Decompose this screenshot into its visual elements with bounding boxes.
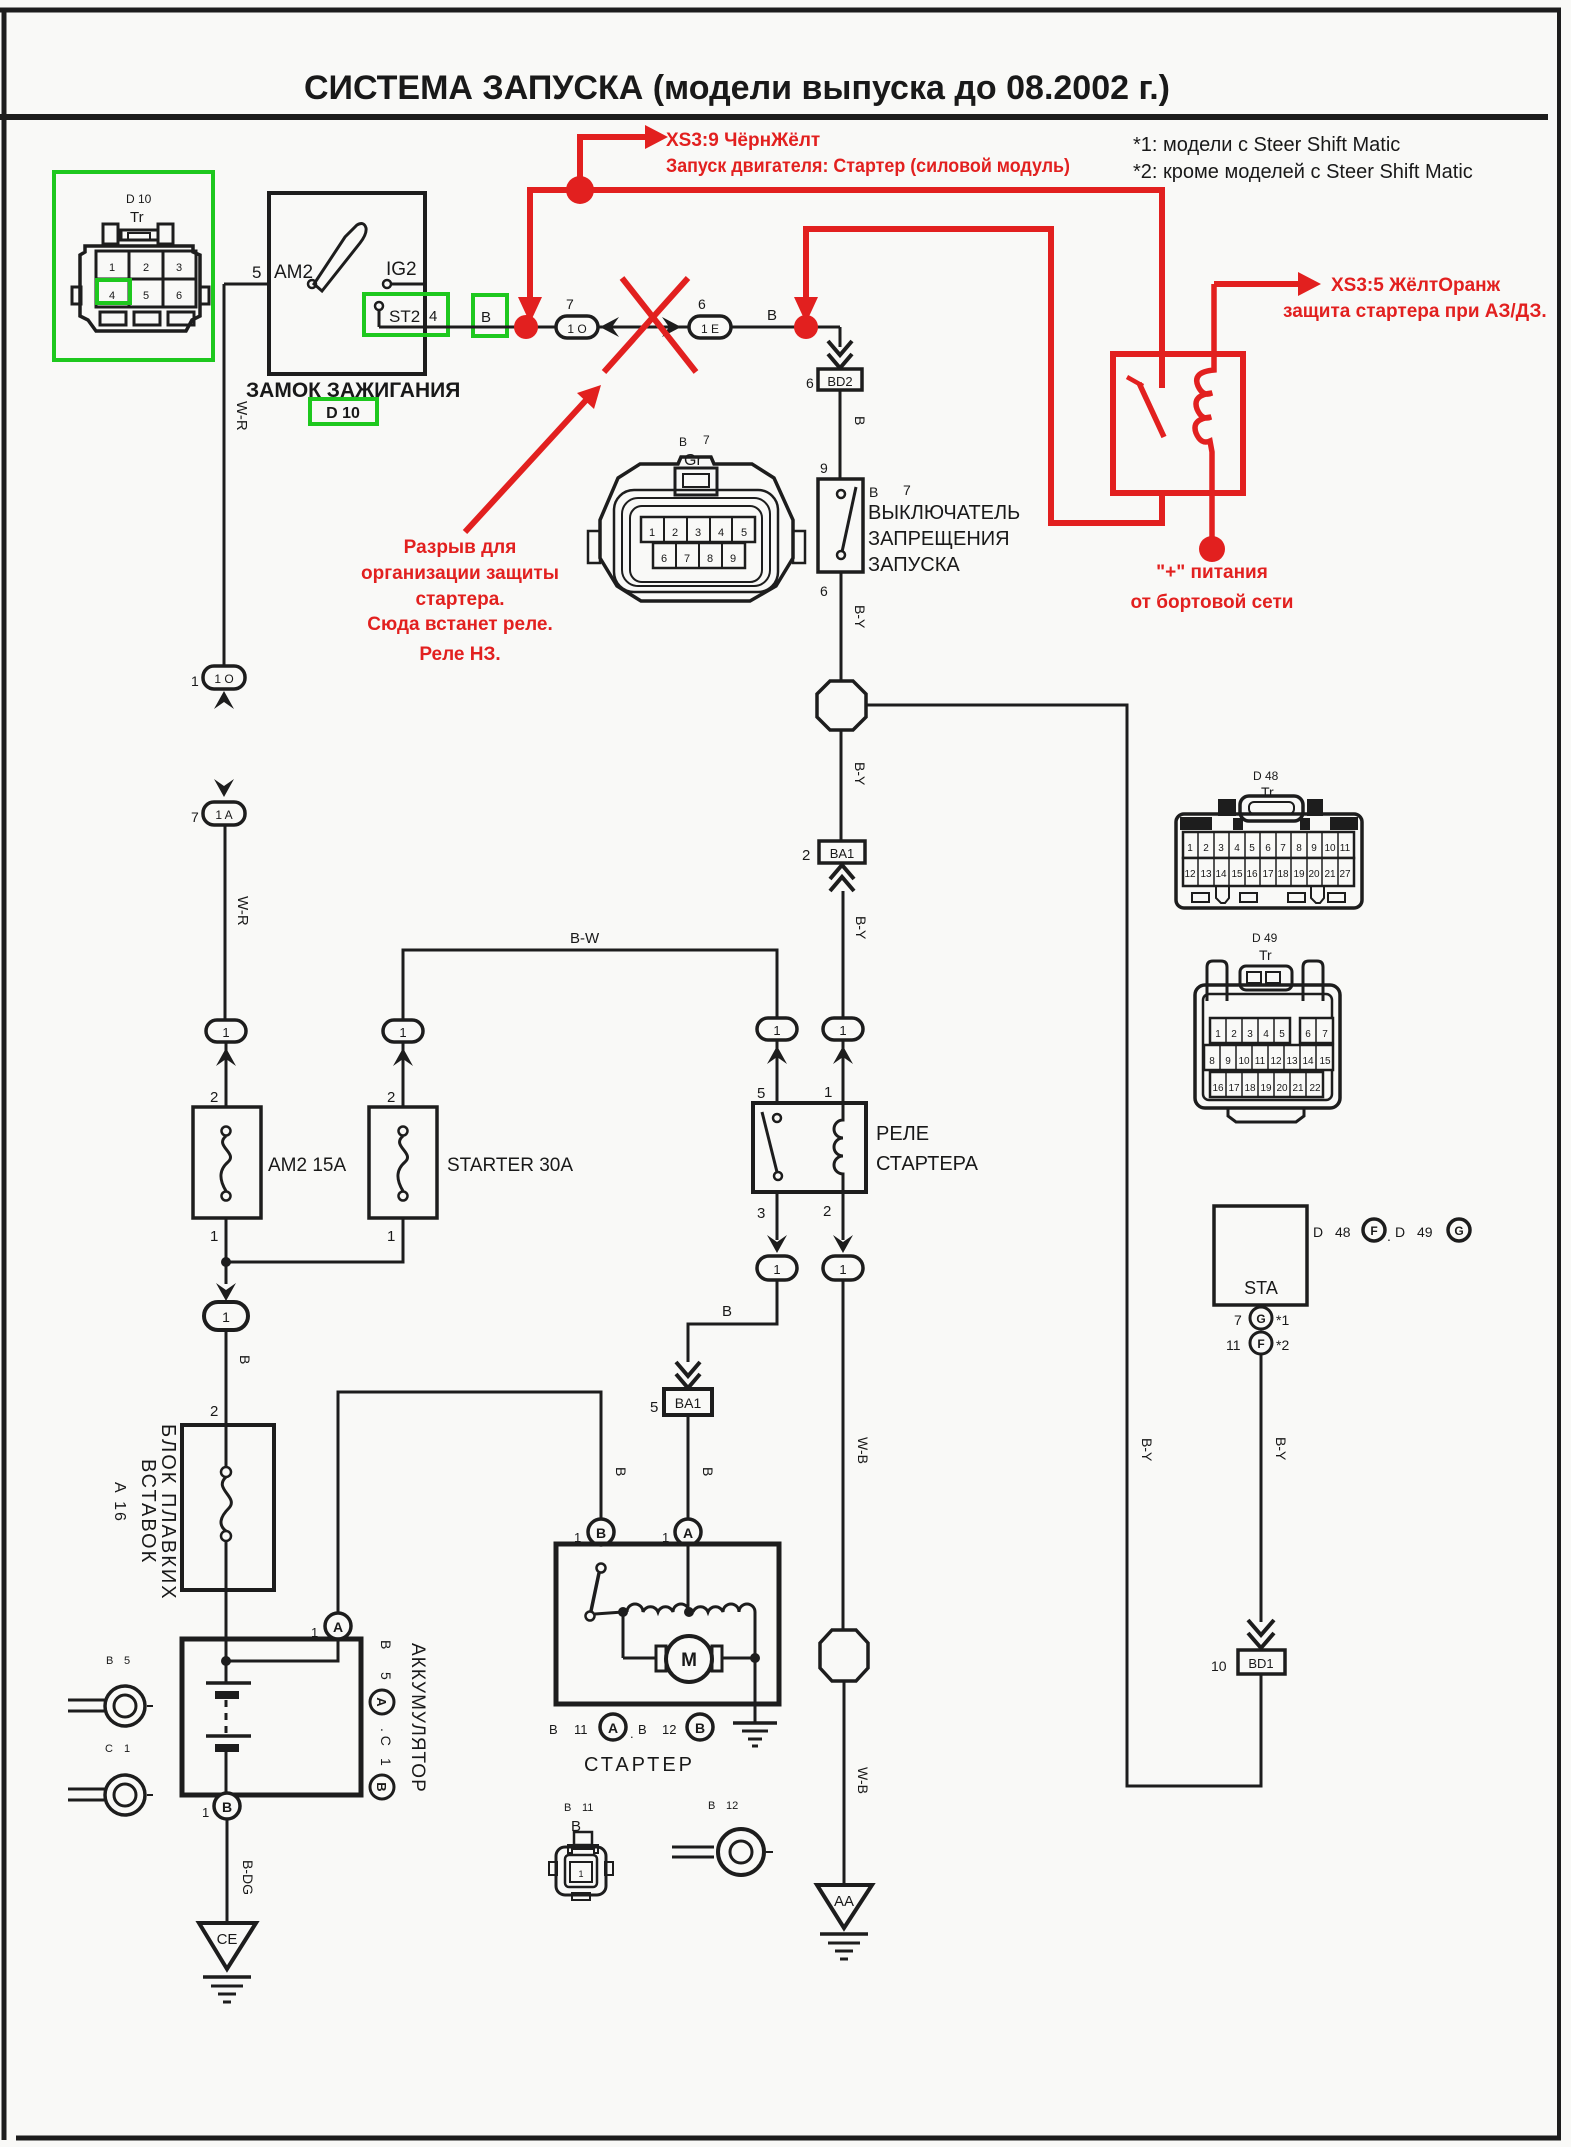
ground symbol inside starter (right) [733, 1723, 777, 1746]
svg-text:2: 2 [672, 527, 678, 539]
red dot on wire B right of cut [794, 315, 818, 339]
svg-text:D 10: D 10 [326, 405, 360, 422]
ring terminal C 1 (lower left) [68, 1743, 153, 1815]
svg-text:1: 1 [222, 1309, 230, 1325]
red dot on wire B left of cut [514, 315, 538, 339]
label BLOK PLAVKIKH VSTAVOK A 16 (rotated) [157, 1424, 179, 1601]
connector D48 body (27-pin) [1176, 796, 1362, 908]
svg-text:*2: кроме моделей с Steer Shif: *2: кроме моделей с Steer Shift Matic [1133, 161, 1473, 183]
pin 2 label STARTER fuse [387, 1089, 395, 1106]
svg-text:B: B [722, 1303, 732, 1320]
svg-text:РЕЛЕ: РЕЛЕ [876, 1123, 929, 1145]
svg-text:8: 8 [707, 553, 713, 565]
pin 6 label of BD2 [806, 375, 814, 391]
svg-text:B: B [700, 1467, 716, 1476]
svg-text:B-Y: B-Y [853, 916, 869, 940]
svg-text:19: 19 [1260, 1083, 1272, 1094]
octagon splice junction (upper) [817, 681, 866, 730]
svg-text:M: M [681, 1650, 697, 1671]
svg-text:5: 5 [143, 290, 149, 302]
svg-text:7: 7 [1234, 1312, 1242, 1328]
svg-text:5: 5 [650, 1399, 658, 1416]
svg-text:ВСТАВОК: ВСТАВОК [137, 1459, 159, 1564]
relay pin labels 5 and 1 [757, 1084, 832, 1102]
svg-text:B-W: B-W [570, 930, 600, 947]
ground connector AA triangle [817, 1885, 872, 1928]
wire label B (x601) [613, 1467, 629, 1476]
svg-text:*1: *1 [1276, 1312, 1289, 1328]
svg-text:D 48: D 48 [1253, 769, 1279, 783]
terminal AM2 pin 5 [252, 262, 313, 283]
svg-text:.: . [630, 1726, 634, 1741]
oval connector 1 (relay pin 5 top) [757, 1018, 797, 1040]
svg-text:5: 5 [1279, 1029, 1285, 1040]
wire label W-B (below octagon) [855, 1767, 871, 1794]
oval connector 1 (below relay pin2) [823, 1256, 863, 1280]
svg-text:18: 18 [1277, 869, 1289, 880]
wire oval to fusible link box [225, 1330, 228, 1425]
svg-text:10: 10 [1238, 1056, 1250, 1067]
connector D10 (ignition switch connector, 6-pin) [72, 192, 209, 331]
svg-text:В: В [378, 1640, 394, 1649]
svg-text:1: 1 [387, 1228, 395, 1245]
relay coil [834, 1103, 843, 1192]
svg-text:3: 3 [1247, 1029, 1253, 1040]
svg-text:Tr: Tr [1259, 947, 1272, 963]
park/neutral position switch box [818, 479, 863, 572]
wire BA1 down to relay pin 1 [842, 891, 845, 1019]
arrowhead down to oval (to fusible link) [216, 1283, 236, 1301]
svg-text:17: 17 [1262, 869, 1274, 880]
starter box [556, 1544, 779, 1704]
svg-text:СИСТЕМА ЗАПУСКА (модели выпуск: СИСТЕМА ЗАПУСКА (модели выпуска до 08.20… [304, 69, 1170, 107]
svg-text:9: 9 [1311, 843, 1317, 854]
wire label B-Y above BA1 [852, 762, 868, 786]
svg-text:1 E: 1 E [701, 322, 719, 336]
label STARTER [584, 1754, 695, 1776]
svg-text:5: 5 [757, 1085, 765, 1102]
battery connector circle A with pin 1 [311, 1613, 351, 1640]
fuse label AM2 15A [268, 1155, 346, 1176]
title [304, 69, 1170, 107]
arrowhead pointing left on wire B [600, 317, 619, 337]
STA pin 7 G *1 [1234, 1307, 1289, 1329]
svg-text:3: 3 [757, 1205, 765, 1222]
svg-text:2: 2 [1231, 1029, 1237, 1040]
red diagonal arrow to cut point [465, 385, 601, 532]
svg-text:G: G [1454, 1224, 1463, 1238]
long wire from octagon right to lower right loop [866, 705, 1261, 1786]
double chevron arrow down into BD2 [828, 341, 852, 368]
svg-text:Реле НЗ.: Реле НЗ. [419, 644, 500, 665]
wire label B-Y (x1261) [1273, 1437, 1289, 1461]
wires fuses join [226, 1218, 403, 1284]
wire label B-W [570, 930, 600, 947]
svg-text:Разрыв для: Разрыв для [404, 537, 517, 558]
fuse label STARTER 30A [447, 1155, 573, 1176]
svg-text:Сюда встанет реле.: Сюда встанет реле. [367, 614, 552, 635]
svg-text:защита стартера при АЗ/ДЗ.: защита стартера при АЗ/ДЗ. [1283, 301, 1547, 322]
svg-text:А 16: А 16 [111, 1482, 128, 1523]
wire label W-R (upper left) [233, 401, 250, 431]
ground symbol below CE [203, 1977, 251, 2002]
svg-text:2: 2 [1203, 843, 1209, 854]
fusible link block box [182, 1425, 274, 1590]
svg-text:13: 13 [1200, 869, 1212, 880]
svg-text:16: 16 [1212, 1083, 1224, 1094]
svg-text:7: 7 [566, 296, 574, 312]
wire label B (x688) [700, 1467, 716, 1476]
svg-text:IG2: IG2 [386, 259, 417, 280]
svg-text:B-Y: B-Y [852, 605, 868, 629]
svg-text:3: 3 [176, 262, 182, 274]
svg-text:4: 4 [109, 290, 115, 302]
double chevron arrow up into BA1 [830, 865, 854, 891]
svg-text:6: 6 [1265, 843, 1271, 854]
label B 7 of switch connector [869, 482, 911, 500]
relay pin labels 3 and 2 [757, 1203, 831, 1222]
svg-text:5: 5 [378, 1672, 394, 1680]
red arrow to XS3:5 label [1214, 272, 1321, 296]
oval connector 1 (below relay pin3) [757, 1256, 797, 1280]
svg-text:49: 49 [1417, 1224, 1433, 1240]
svg-text:АККУМУЛЯТОР: АККУМУЛЯТОР [407, 1643, 428, 1793]
svg-text:3: 3 [1218, 843, 1224, 854]
battery cell symbols [206, 1661, 251, 1794]
svg-text:организации защиты: организации защиты [361, 563, 559, 584]
red annotation: arrow to XS3:9 label [580, 125, 668, 187]
svg-text:AM2: AM2 [274, 262, 313, 283]
svg-text:6: 6 [806, 375, 814, 391]
relay label RELE STARTERA [876, 1123, 979, 1175]
svg-text:CE: CE [217, 1931, 238, 1948]
green highlight box around wire label B [473, 295, 507, 336]
svg-text:1: 1 [311, 1625, 318, 1640]
svg-text:14: 14 [1215, 869, 1227, 880]
svg-text:11: 11 [1340, 843, 1351, 854]
svg-text:6: 6 [820, 583, 828, 599]
svg-text:BA1: BA1 [675, 1395, 702, 1411]
svg-text:1: 1 [773, 1262, 780, 1277]
svg-text:B: B [708, 1800, 715, 1812]
svg-text:ST2: ST2 [389, 307, 420, 326]
svg-text:B: B [564, 1802, 571, 1814]
svg-text:11: 11 [574, 1722, 588, 1737]
svg-text:BD1: BD1 [1248, 1656, 1273, 1671]
ignition key lever [308, 224, 366, 291]
wire label B before right red dot [767, 307, 777, 324]
svg-text:*1: модели с Steer Shift Matic: *1: модели с Steer Shift Matic [1133, 134, 1400, 156]
svg-text:8: 8 [1296, 843, 1302, 854]
arrowhead up below oval (relay pin5) [767, 1046, 787, 1064]
svg-text:B: B [106, 1655, 113, 1667]
svg-text:5: 5 [1249, 843, 1255, 854]
wire label B (left column) [237, 1355, 253, 1364]
svg-text:AA: AA [834, 1893, 854, 1910]
ground symbol below AA [820, 1934, 868, 1959]
fuse STARTER 30A [369, 1107, 437, 1218]
svg-text:1: 1 [824, 1084, 832, 1101]
wire label W-B (above octagon) [855, 1437, 871, 1464]
ring terminal B 5 (upper left) [68, 1655, 153, 1726]
wire oval to STARTER fuse [402, 1042, 405, 1107]
svg-text:1: 1 [202, 1805, 209, 1820]
terminal IG2 [383, 259, 425, 288]
oval joint connector 1 A (left column) [203, 802, 245, 825]
connector D49 body (22-pin) [1195, 961, 1340, 1122]
svg-text:B: B [596, 1525, 606, 1541]
starter terminal circle A with pin 1 [662, 1519, 701, 1545]
svg-text:D 49: D 49 [1252, 931, 1278, 945]
svg-text:СТАРТЕР: СТАРТЕР [584, 1754, 695, 1776]
svg-text:B-Y: B-Y [852, 762, 868, 786]
svg-text:STA: STA [1244, 1278, 1278, 1298]
svg-text:Запуск двигателя: Стартер (сил: Запуск двигателя: Стартер (силовой модул… [666, 156, 1070, 177]
svg-text:3: 3 [695, 527, 701, 539]
svg-text:4: 4 [1263, 1029, 1269, 1040]
svg-text:1: 1 [378, 1758, 394, 1766]
red X cross over wire B [604, 278, 696, 372]
wire horizontal from battery A up-line to starter terminal B [338, 1392, 601, 1614]
pin label 7 above oval connector IO [566, 296, 574, 312]
svg-text:7: 7 [684, 553, 690, 565]
svg-text:*2: *2 [1276, 1337, 1289, 1353]
svg-text:B: B [549, 1722, 558, 1737]
svg-text:11: 11 [582, 1802, 593, 1814]
main wire B from ST2 to right [379, 326, 840, 329]
oval joint connector 1 O (left column) [203, 666, 245, 689]
svg-text:XS3:5 ЖёлтОранж: XS3:5 ЖёлтОранж [1331, 275, 1501, 296]
oval joint connector 1 O [556, 316, 598, 338]
svg-text:B: B [679, 435, 687, 449]
svg-text:BA1: BA1 [830, 846, 855, 861]
svg-text:2: 2 [210, 1403, 218, 1420]
note *1 models with Steer Shift Matic [1133, 134, 1400, 156]
svg-text:2: 2 [210, 1089, 218, 1106]
svg-text:10: 10 [1211, 1658, 1227, 1674]
oval connector 1 (above AM2 fuse) [206, 1020, 246, 1042]
svg-text:.: . [1387, 1228, 1391, 1244]
arrowhead down above oval IA [214, 779, 234, 797]
battery box [182, 1639, 361, 1795]
svg-text:7: 7 [1322, 1029, 1328, 1040]
svg-text:9: 9 [730, 553, 736, 565]
svg-text:"+" питания: "+" питания [1156, 562, 1268, 583]
svg-text:B: B [767, 307, 777, 324]
starter relay box [753, 1103, 866, 1192]
starter motor M [623, 1612, 760, 1723]
svg-text:27: 27 [1339, 869, 1351, 880]
relay switch contacts and blade [762, 1112, 782, 1180]
svg-text:19: 19 [1293, 869, 1305, 880]
wire octagon down to BA1 [840, 730, 843, 841]
svg-text:2: 2 [143, 262, 149, 274]
svg-text:W-B: W-B [855, 1437, 871, 1464]
svg-text:БЛОК ПЛАВКИХ: БЛОК ПЛАВКИХ [157, 1424, 179, 1601]
pin 10 label of BD1 [1211, 1658, 1227, 1674]
svg-text:1: 1 [222, 1025, 229, 1040]
svg-text:6: 6 [1305, 1029, 1311, 1040]
svg-text:B: B [222, 1799, 232, 1815]
svg-text:6: 6 [661, 553, 667, 565]
wire from switch down to octagon junction [840, 572, 843, 681]
wire label B-Y on long vertical [1139, 1438, 1155, 1462]
svg-text:15: 15 [1231, 869, 1243, 880]
red junction dot on annotation line [566, 176, 594, 204]
svg-text:W-B: W-B [855, 1767, 871, 1794]
svg-text:5: 5 [124, 1655, 130, 1667]
svg-text:14: 14 [1302, 1056, 1314, 1067]
svg-text:9: 9 [1225, 1056, 1231, 1067]
svg-text:5: 5 [252, 263, 261, 282]
starter solenoid switch [586, 1564, 624, 1621]
wire IA down to AM2 fuse oval [224, 825, 227, 1020]
svg-text:B-Y: B-Y [1273, 1437, 1289, 1461]
red dot power feed [1199, 536, 1225, 562]
svg-text:1: 1 [124, 1743, 130, 1755]
svg-text:6: 6 [698, 296, 706, 312]
svg-text:ЗАПРЕЩЕНИЯ: ЗАПРЕЩЕНИЯ [868, 528, 1010, 550]
svg-text:15: 15 [1319, 1056, 1331, 1067]
arrowhead up below oval (relay pin1) [833, 1046, 853, 1064]
ground connector CE triangle [199, 1923, 256, 1969]
oval connector 1 (relay pin 1 top) [823, 1018, 863, 1040]
svg-text:от бортовой сети: от бортовой сети [1131, 592, 1294, 613]
double chevron arrow down into BA1 lower [676, 1362, 700, 1388]
terminal ST2 pin 4 with wire stub [375, 302, 437, 327]
red relay coil [1195, 284, 1214, 537]
starter pin labels B 11 A . B 12 B [549, 1714, 713, 1741]
svg-text:W-R: W-R [233, 401, 250, 431]
arrowhead down to oval (relay pin3) [767, 1235, 787, 1253]
connector BD2 [818, 369, 862, 390]
red wire from left cut point to relay coil top line [518, 190, 1162, 388]
svg-text:1: 1 [839, 1023, 846, 1038]
green highlight box around pin 4 of D10 [97, 280, 130, 303]
wire fusible link to battery [225, 1590, 228, 1661]
note *2 except models with Steer Shift Matic [1133, 161, 1473, 183]
svg-text:1 O: 1 O [567, 322, 586, 336]
svg-text:1 O: 1 O [214, 672, 233, 686]
STA pin 11 F *2 [1226, 1332, 1289, 1354]
battery pin labels B 5 A . C 1 B (rotated column) [378, 1640, 394, 1766]
wire BD2 to park/neutral switch [839, 390, 842, 479]
svg-text:А: А [374, 1697, 389, 1707]
svg-text:F: F [1370, 1224, 1377, 1238]
svg-text:A: A [683, 1525, 693, 1541]
svg-text:B: B [481, 309, 491, 326]
svg-text:XS3:9 ЧёрнЖёлт: XS3:9 ЧёрнЖёлт [666, 130, 820, 151]
connector BD1 [1238, 1650, 1285, 1674]
svg-text:4: 4 [718, 527, 724, 539]
svg-text:9: 9 [820, 460, 828, 476]
svg-text:48: 48 [1335, 1224, 1351, 1240]
label ZAMOK ZAZHIGANIYA [246, 379, 460, 402]
wire label W-R (lower) [234, 896, 251, 926]
svg-text:C: C [105, 1743, 113, 1755]
svg-text:21: 21 [1324, 869, 1336, 880]
arrowhead down to oval (relay pin2) [833, 1235, 853, 1253]
connector Gr body [588, 457, 805, 601]
red relay switch blade [1127, 377, 1164, 437]
svg-text:4: 4 [429, 308, 437, 325]
svg-text:17: 17 [1228, 1083, 1240, 1094]
svg-text:A: A [608, 1720, 618, 1736]
wire turning down to BD2 [839, 327, 842, 347]
wire from battery A terminal to positive plate [221, 1639, 338, 1666]
oval joint connector 1 E [689, 316, 731, 338]
arrowhead up below oval (AM2) [216, 1048, 236, 1066]
connector Gr (9-pin oval) labels [679, 433, 710, 469]
label AKKUMULYATOR (rotated) [407, 1643, 428, 1793]
svg-text:стартера.: стартера. [415, 589, 504, 610]
wire label B-Y above relay [853, 916, 869, 940]
svg-text:5: 5 [741, 527, 747, 539]
svg-text:1: 1 [191, 673, 199, 689]
svg-text:12: 12 [1270, 1056, 1282, 1067]
svg-text:F: F [1257, 1337, 1264, 1351]
fuse AM2 15A [193, 1107, 261, 1218]
double chevron arrow down into BD1 [1248, 1620, 1274, 1648]
wire oval to AM2 fuse [225, 1042, 228, 1107]
svg-text:B: B [613, 1467, 629, 1476]
svg-text:1: 1 [399, 1025, 406, 1040]
svg-text:22: 22 [1309, 1083, 1321, 1094]
svg-text:STARTER 30A: STARTER 30A [447, 1155, 573, 1176]
svg-text:20: 20 [1308, 869, 1320, 880]
wire from ignition AM2 pin 5 to left column [224, 284, 269, 669]
STA box [1214, 1206, 1307, 1305]
connector D48 label [1253, 769, 1279, 800]
wires relay to lower ovals [777, 1192, 843, 1240]
svg-text:12: 12 [662, 1722, 676, 1737]
svg-text:18: 18 [1244, 1083, 1256, 1094]
svg-text:11: 11 [1226, 1337, 1241, 1353]
svg-text:B: B [852, 416, 868, 425]
svg-text:Gr: Gr [684, 452, 702, 469]
wire label B (in green box) [481, 309, 491, 326]
svg-text:A: A [333, 1619, 343, 1635]
pin 7 label of left oval IA [191, 809, 199, 825]
svg-text:D: D [1313, 1224, 1323, 1240]
wires ovals to relay box [777, 1040, 843, 1103]
svg-text:AM2 15A: AM2 15A [268, 1155, 346, 1176]
red relay box (proposed NC relay) [1113, 354, 1243, 493]
svg-text:13: 13 [1286, 1056, 1298, 1067]
wire label B at corner [722, 1303, 732, 1320]
wire label B-Y below switch [852, 605, 868, 629]
pin label 6 above oval connector IE [698, 296, 706, 312]
connector BA1 (lower) [664, 1389, 712, 1415]
svg-text:1: 1 [578, 1869, 583, 1879]
svg-text:1: 1 [649, 527, 655, 539]
octagon splice junction (lower) [820, 1630, 868, 1681]
svg-text:12: 12 [726, 1800, 738, 1812]
svg-text:1: 1 [1187, 843, 1193, 854]
svg-text:8: 8 [1209, 1056, 1215, 1067]
svg-text:1: 1 [210, 1228, 218, 1245]
svg-text:1: 1 [109, 262, 115, 274]
svg-text:16: 16 [1246, 869, 1258, 880]
pin 1 label of left oval IO [191, 673, 199, 689]
svg-text:2: 2 [802, 847, 810, 864]
svg-text:B: B [869, 484, 878, 500]
starter terminal circle B with pin 1 [574, 1519, 614, 1545]
arrowhead pointing right on wire B [662, 317, 681, 337]
svg-text:10: 10 [1324, 843, 1336, 854]
pin 6 label below switch [820, 583, 828, 599]
svg-text:B: B [638, 1722, 647, 1737]
